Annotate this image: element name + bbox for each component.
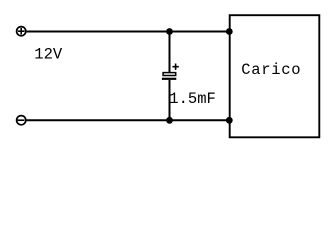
svg-text:12V: 12V — [34, 46, 63, 64]
wire capacitor bottom lead — [169, 80, 171, 120]
node junction top load — [226, 28, 233, 35]
positive source terminal (+) — [17, 27, 26, 36]
node junction top capacitor — [166, 28, 173, 35]
node junction bottom capacitor — [166, 117, 173, 124]
capacitor C1 polarity + — [172, 64, 178, 70]
svg-text:Carico: Carico — [241, 61, 301, 79]
svg-text:1.5mF: 1.5mF — [169, 90, 216, 108]
capacitor C1 bottom plate — [162, 78, 176, 80]
wire top rail — [27, 31, 230, 33]
capacitor C1 top plate — [163, 73, 176, 76]
negative source terminal (-) — [17, 116, 26, 125]
wire capacitor top lead — [169, 32, 171, 73]
node junction bottom load — [226, 117, 233, 124]
wire bottom rail — [27, 119, 230, 121]
load box Carico — [230, 15, 320, 137]
